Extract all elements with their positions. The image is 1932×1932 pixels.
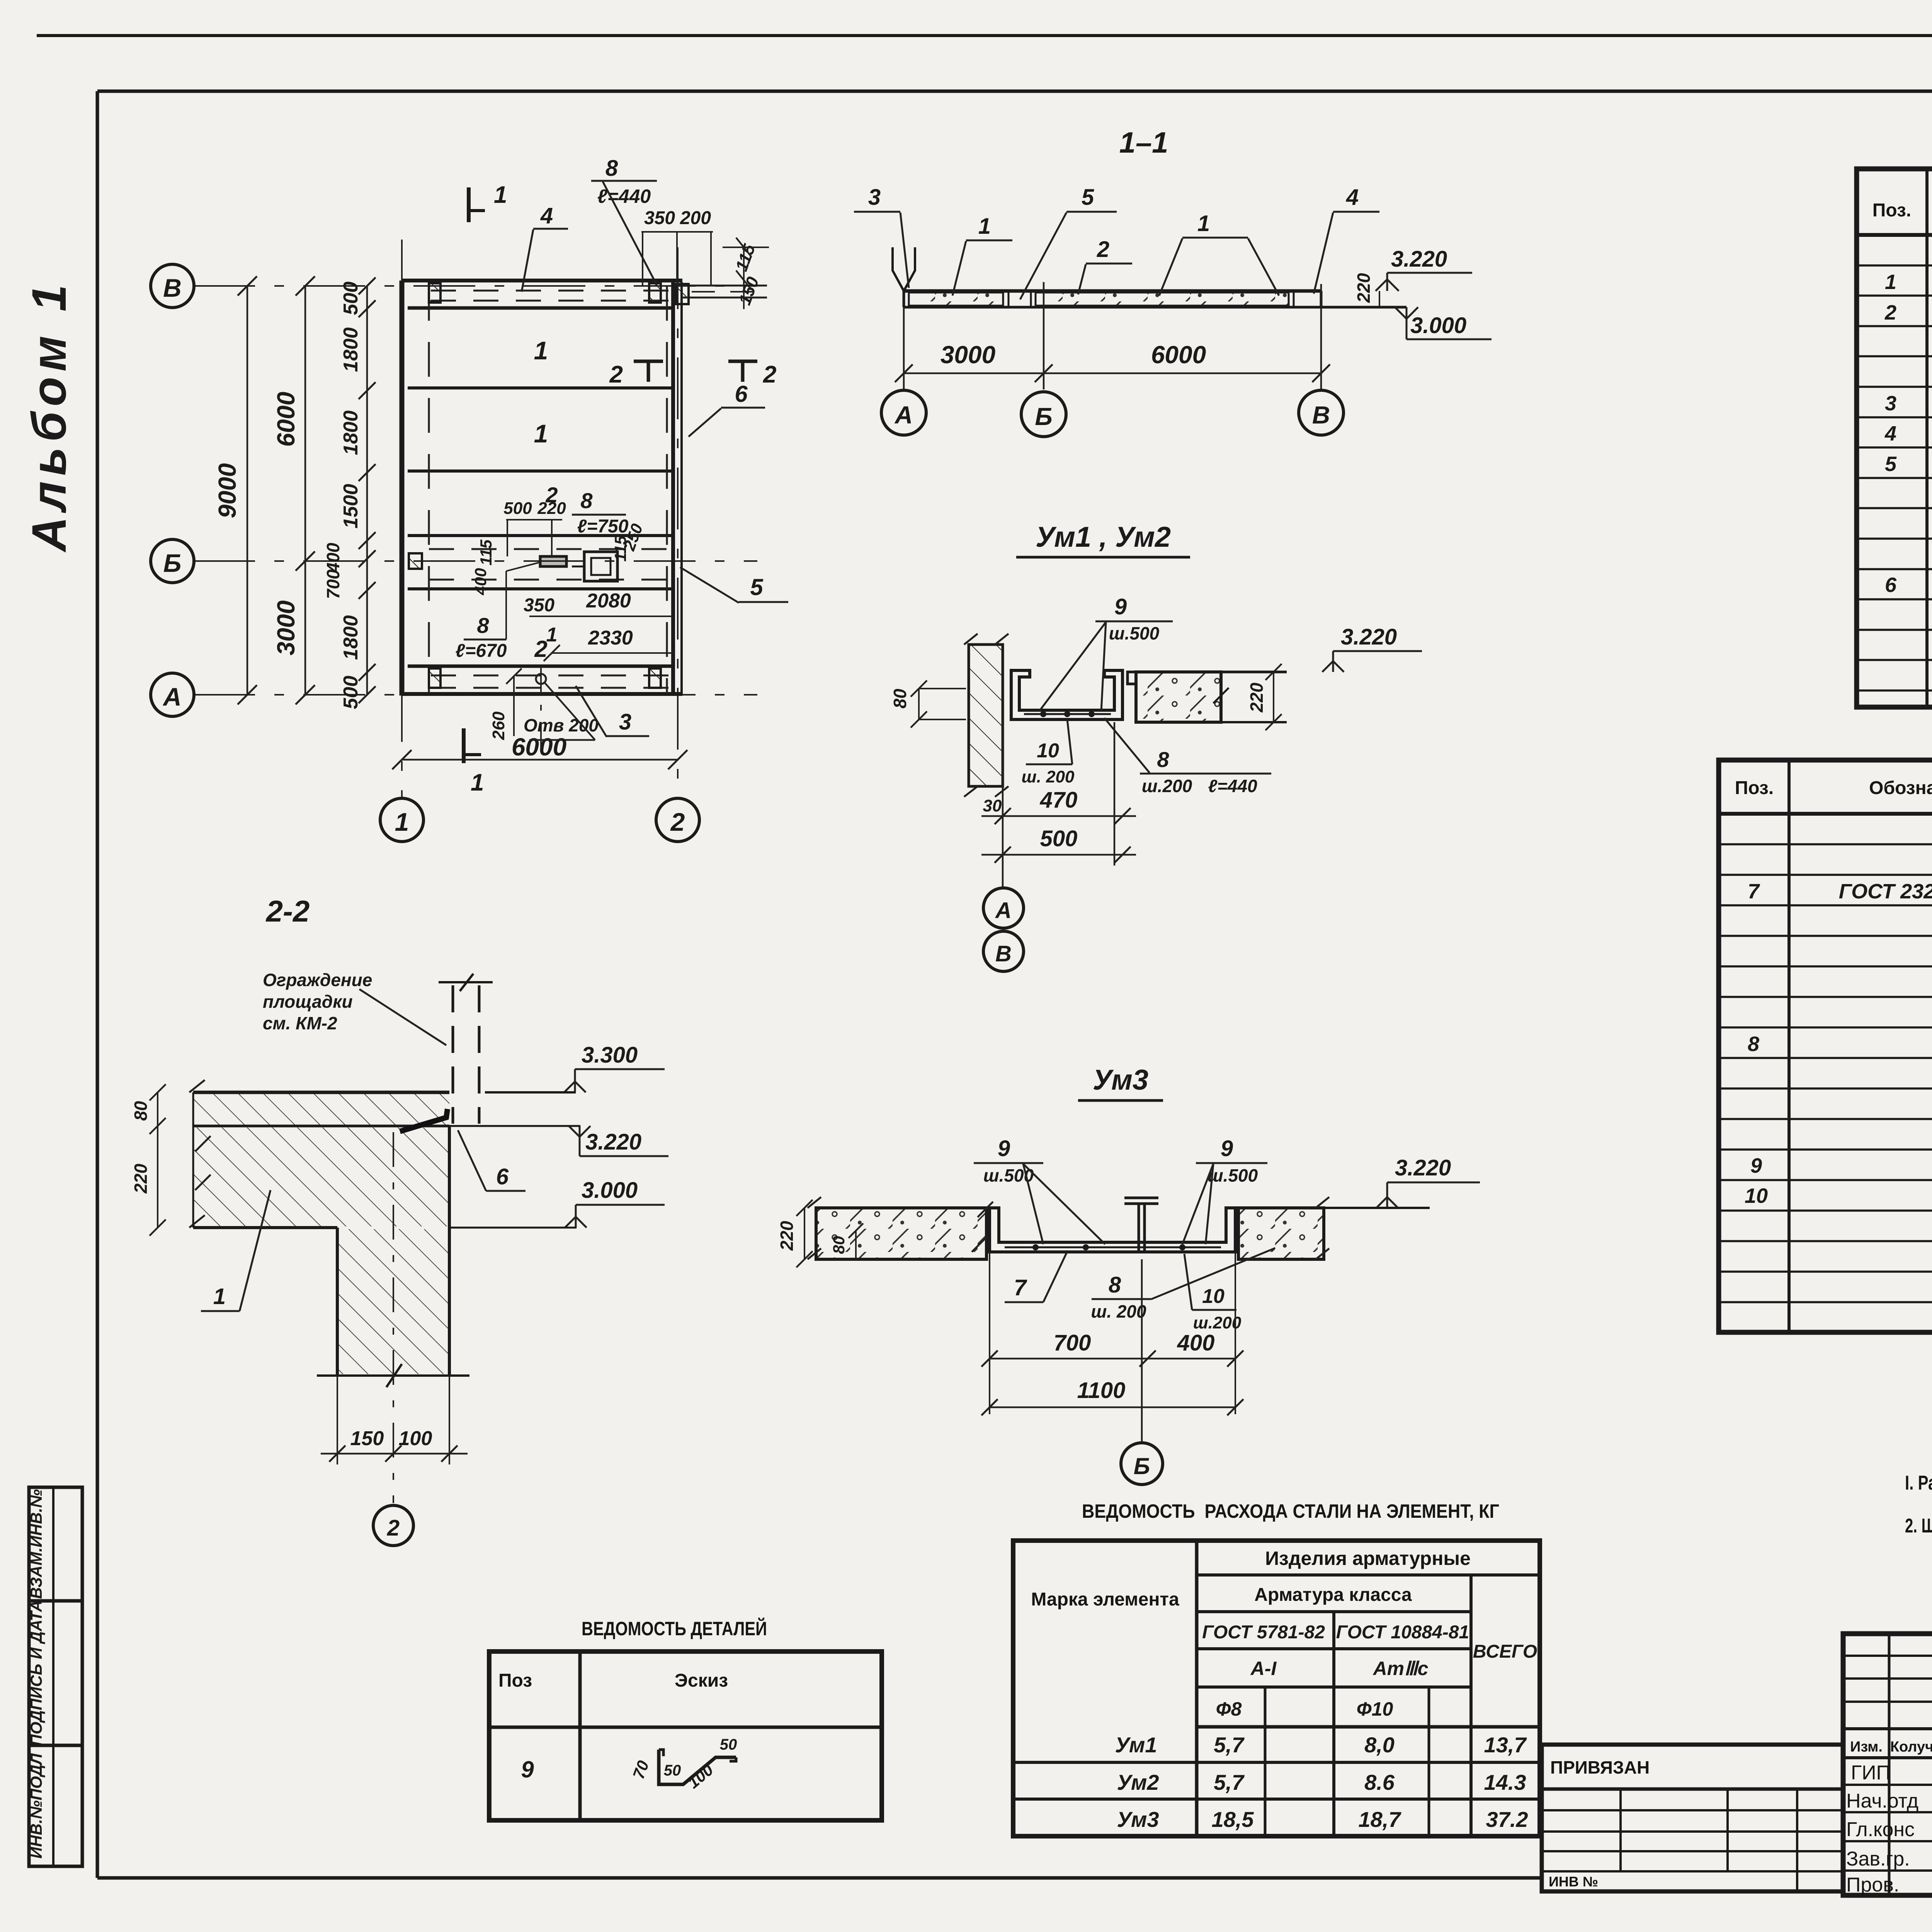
main slab 220 bbox=[193, 1226, 337, 1229]
section mark 2 right bbox=[728, 360, 757, 363]
svg-text:100: 100 bbox=[399, 1427, 432, 1450]
svg-text:Арматура класса: Арматура класса bbox=[1254, 1585, 1412, 1605]
wall section hatched bbox=[969, 645, 1003, 786]
left slab hatched bbox=[816, 1208, 986, 1259]
svg-text:1800: 1800 bbox=[340, 615, 362, 660]
svg-text:80: 80 bbox=[830, 1236, 848, 1254]
hatch top slab bbox=[193, 1094, 449, 1125]
svg-text:10: 10 bbox=[1202, 1285, 1225, 1308]
svg-text:400: 400 bbox=[323, 543, 343, 573]
svg-text:ВЗАМ.ИНВ.№: ВЗАМ.ИНВ.№ bbox=[27, 1489, 45, 1599]
header Изделия арматурные bbox=[1197, 1573, 1540, 1577]
svg-text:1: 1 bbox=[471, 769, 484, 796]
svg-text:1100: 1100 bbox=[1077, 1378, 1126, 1403]
svg-text:220: 220 bbox=[777, 1221, 797, 1251]
concrete fill left plate bbox=[909, 293, 1003, 306]
svg-text:ш.200: ш.200 bbox=[1142, 776, 1192, 796]
svg-text:Изм.: Изм. bbox=[1850, 1739, 1883, 1755]
column below bbox=[336, 1228, 339, 1376]
svg-text:2: 2 bbox=[763, 361, 776, 388]
dashed plate edge line right bbox=[666, 286, 668, 694]
svg-text:ℓ=440: ℓ=440 bbox=[597, 185, 651, 207]
svg-text:9000: 9000 bbox=[213, 463, 241, 518]
middle band top bbox=[408, 534, 673, 537]
svg-text:площадки: площадки bbox=[263, 992, 353, 1012]
svg-text:Эскиз: Эскиз bbox=[675, 1670, 728, 1691]
bottom band top edge bbox=[408, 665, 673, 668]
svg-text:1: 1 bbox=[978, 214, 991, 239]
sketch bent bar bbox=[659, 1750, 736, 1784]
monolithic channel Ум3 bbox=[990, 1208, 1235, 1252]
dim line bbox=[904, 372, 1321, 374]
spec table frame bbox=[1857, 169, 1932, 707]
outer top line bbox=[37, 34, 1932, 37]
svg-text:1: 1 bbox=[494, 182, 507, 208]
svg-text:3: 3 bbox=[619, 709, 631, 735]
title block frame bbox=[1843, 1634, 1932, 1895]
row lines bbox=[1719, 844, 1932, 1302]
svg-text:6000: 6000 bbox=[1151, 341, 1206, 369]
svg-text:115: 115 bbox=[477, 539, 495, 566]
table frame bbox=[1719, 760, 1932, 1332]
svg-text:6000: 6000 bbox=[272, 392, 300, 447]
svg-text:3.300: 3.300 bbox=[582, 1043, 638, 1068]
svg-text:ш. 200: ш. 200 bbox=[1091, 1301, 1146, 1321]
svg-text:3.000: 3.000 bbox=[582, 1178, 638, 1203]
svg-text:6: 6 bbox=[1885, 573, 1897, 597]
axis circle В bbox=[151, 264, 194, 308]
svg-text:В: В bbox=[1312, 401, 1330, 429]
top slab line to right bbox=[1221, 671, 1287, 673]
svg-text:см. КМ-2: см. КМ-2 bbox=[263, 1013, 337, 1033]
svg-text:1500: 1500 bbox=[340, 484, 362, 529]
wall break marks bbox=[964, 634, 1009, 797]
svg-text:8: 8 bbox=[1109, 1272, 1121, 1298]
svg-text:3000: 3000 bbox=[272, 600, 300, 655]
support joints bbox=[1008, 291, 1010, 307]
svg-text:500: 500 bbox=[340, 282, 362, 315]
svg-text:ℓ=670: ℓ=670 bbox=[456, 641, 507, 661]
svg-text:Пров.: Пров. bbox=[1846, 1874, 1899, 1896]
axis circle Б bbox=[151, 539, 194, 583]
column lines bbox=[1787, 760, 1791, 1332]
svg-text:50: 50 bbox=[664, 1762, 681, 1779]
svg-text:ГОСТ 23279- 85: ГОСТ 23279- 85 bbox=[1839, 880, 1932, 903]
ВСЕГО column bbox=[1469, 1575, 1473, 1836]
svg-text:4: 4 bbox=[1884, 422, 1896, 445]
svg-text:ПОДПИСЬ И ДАТА: ПОДПИСЬ И ДАТА bbox=[27, 1600, 45, 1746]
svg-text:220: 220 bbox=[1247, 682, 1267, 713]
svg-text:Поз.: Поз. bbox=[1872, 200, 1911, 221]
svg-text:5: 5 bbox=[1885, 452, 1897, 476]
svg-text:2: 2 bbox=[670, 808, 685, 836]
svg-text:А: А bbox=[894, 401, 913, 429]
leader to railing bbox=[359, 989, 446, 1045]
svg-text:8: 8 bbox=[605, 156, 618, 181]
concrete fill right plates bbox=[1036, 293, 1289, 306]
slab band outline bbox=[904, 289, 1321, 293]
axis circle А bbox=[983, 888, 1024, 928]
svg-text:Б: Б bbox=[1134, 1453, 1150, 1479]
left part rows bbox=[1843, 1656, 1932, 1871]
svg-text:А-I: А-I bbox=[1250, 1658, 1277, 1679]
svg-text:700: 700 bbox=[1054, 1330, 1091, 1355]
left stamp strip bbox=[29, 1487, 82, 1866]
top screed slab 80 bbox=[193, 1091, 449, 1094]
axis line 1 bbox=[401, 240, 403, 798]
embedded part bottom-right bbox=[649, 668, 661, 688]
svg-text:2: 2 bbox=[609, 361, 623, 388]
svg-text:5: 5 bbox=[1082, 185, 1094, 210]
axis vertical В bbox=[1320, 284, 1322, 389]
axis line 2 bbox=[677, 247, 679, 798]
svg-text:Обозначение: Обозначение bbox=[1869, 778, 1932, 798]
title block bbox=[1843, 1634, 1932, 1932]
rebar dots in channel bbox=[1024, 713, 1111, 715]
ГОСТ row bbox=[1197, 1647, 1471, 1650]
svg-text:220: 220 bbox=[131, 1163, 151, 1194]
middle band dashed bbox=[429, 548, 667, 550]
svg-text:Колуч: Колуч bbox=[1890, 1739, 1932, 1755]
svg-text:Ум1 , Ум2: Ум1 , Ум2 bbox=[1036, 521, 1171, 553]
steel consumption table bbox=[1013, 1500, 1540, 1836]
middle detail cluster bbox=[540, 552, 617, 581]
svg-text:500: 500 bbox=[503, 499, 532, 518]
svg-text:500: 500 bbox=[340, 676, 362, 709]
axis line В bbox=[193, 285, 757, 287]
svg-text:ш.500: ш.500 bbox=[1109, 623, 1160, 643]
svg-text:ш. 200: ш. 200 bbox=[1022, 767, 1075, 786]
svg-text:1: 1 bbox=[1885, 270, 1896, 294]
svg-text:150: 150 bbox=[350, 1427, 384, 1450]
svg-text:1: 1 bbox=[534, 419, 548, 448]
svg-text:Изделия арматурные: Изделия арматурные bbox=[1265, 1548, 1471, 1569]
svg-text:1800: 1800 bbox=[340, 410, 362, 455]
svg-text:5,7: 5,7 bbox=[1214, 1770, 1245, 1794]
svg-text:ℓ=750: ℓ=750 bbox=[577, 516, 629, 537]
svg-text:ВЕДОМОСТЬ РАСХОДА СТАЛИ НА ЭЛ: ВЕДОМОСТЬ РАСХОДА СТАЛИ НА ЭЛЕМЕНТ, КГ bbox=[1082, 1500, 1499, 1522]
precast slab right hatched bbox=[1136, 672, 1221, 722]
svg-text:9: 9 bbox=[1750, 1154, 1762, 1177]
svg-text:ГОСТ 10884-81: ГОСТ 10884-81 bbox=[1336, 1622, 1469, 1643]
svg-text:Поз.: Поз. bbox=[1735, 778, 1774, 798]
section 1-1 bbox=[854, 126, 1492, 437]
svg-text:350: 350 bbox=[644, 208, 675, 228]
dashed edges of top band bbox=[431, 290, 668, 292]
svg-text:Альбом 1: Альбом 1 bbox=[22, 279, 76, 553]
svg-text:6: 6 bbox=[496, 1164, 509, 1189]
embedded part top-left bbox=[429, 283, 440, 303]
svg-text:1: 1 bbox=[395, 808, 409, 836]
svg-text:400: 400 bbox=[471, 568, 490, 595]
svg-text:Ограждение: Ограждение bbox=[263, 970, 372, 990]
svg-text:200: 200 bbox=[680, 208, 711, 228]
diameter row bbox=[1197, 1725, 1540, 1729]
svg-text:37.2: 37.2 bbox=[1486, 1807, 1528, 1832]
svg-text:ПРИВЯЗАН: ПРИВЯЗАН bbox=[1550, 1757, 1650, 1777]
data row Ум1 bbox=[1013, 1761, 1540, 1764]
detail Ум3 bbox=[777, 1064, 1480, 1485]
svg-text:3.220: 3.220 bbox=[1391, 247, 1447, 272]
dimension line 9000 bbox=[247, 286, 248, 695]
svg-text:ВСЕГО: ВСЕГО bbox=[1473, 1641, 1537, 1662]
svg-text:1–1: 1–1 bbox=[1119, 126, 1168, 159]
svg-text:2-2: 2-2 bbox=[265, 894, 310, 928]
svg-text:18,7: 18,7 bbox=[1359, 1807, 1402, 1832]
svg-text:8.6: 8.6 bbox=[1364, 1770, 1395, 1794]
axis vertical А bbox=[903, 307, 905, 389]
svg-text:13,7: 13,7 bbox=[1484, 1733, 1527, 1757]
svg-text:8: 8 bbox=[580, 488, 593, 513]
axis line А bbox=[193, 694, 757, 696]
svg-text:2: 2 bbox=[1097, 237, 1109, 262]
hanging wall mark left bbox=[893, 247, 915, 291]
parts sketch table ВЕДОМОСТЬ ДЕТАЛЕЙ bbox=[489, 1617, 882, 1820]
top monolithic band bottom edge bbox=[408, 306, 673, 310]
svg-text:5: 5 bbox=[750, 574, 764, 600]
svg-text:3.220: 3.220 bbox=[1341, 624, 1397, 650]
svg-text:400: 400 bbox=[1177, 1330, 1215, 1355]
axis circle 1 bbox=[380, 798, 423, 842]
svg-text:9: 9 bbox=[1114, 594, 1127, 619]
dimension line 6000/3000 bbox=[304, 286, 306, 695]
triangle leader bbox=[1039, 622, 1106, 711]
svg-text:1: 1 bbox=[1197, 211, 1210, 236]
svg-text:6: 6 bbox=[735, 381, 748, 407]
svg-text:2. Швы между плитами заполнить: 2. Швы между плитами заполнить бетоном к… bbox=[1905, 1515, 1932, 1537]
plan outline bottom bbox=[402, 692, 682, 696]
svg-text:2: 2 bbox=[1884, 301, 1896, 324]
svg-text:7: 7 bbox=[1014, 1275, 1027, 1300]
svg-text:14.3: 14.3 bbox=[1484, 1770, 1526, 1794]
svg-text:8,0: 8,0 bbox=[1364, 1733, 1395, 1757]
svg-text:3: 3 bbox=[1885, 392, 1896, 415]
svg-text:I. Расчетная нагрузка на перек: I. Расчетная нагрузка на перекрытие прин… bbox=[1905, 1472, 1932, 1494]
embedded part at wall corner bbox=[676, 284, 689, 304]
svg-text:9: 9 bbox=[521, 1757, 534, 1782]
svg-text:ВЕДОМОСТЬ ДЕТАЛЕЙ: ВЕДОМОСТЬ ДЕТАЛЕЙ bbox=[582, 1617, 767, 1639]
monolithic channel Ум1 bbox=[1011, 670, 1122, 719]
axis circle Б bbox=[1121, 1443, 1163, 1485]
svg-text:ш.500: ш.500 bbox=[1207, 1165, 1258, 1185]
svg-text:Б: Б bbox=[163, 549, 182, 577]
svg-text:260: 260 bbox=[489, 711, 508, 740]
svg-text:1: 1 bbox=[534, 336, 548, 365]
svg-text:Зав.гр.: Зав.гр. bbox=[1846, 1848, 1910, 1870]
opening mark bbox=[536, 674, 546, 684]
section mark 1 top bbox=[467, 187, 471, 222]
svg-text:1: 1 bbox=[546, 624, 558, 646]
svg-text:Ум3: Ум3 bbox=[1117, 1807, 1159, 1832]
svg-text:ИНВ.№ПОДЛ: ИНВ.№ПОДЛ bbox=[27, 1753, 45, 1859]
plan outline top bbox=[402, 279, 682, 282]
left part columns bbox=[1889, 1634, 1932, 1895]
header row bbox=[1857, 233, 1932, 237]
svg-text:1: 1 bbox=[213, 1284, 226, 1309]
svg-text:В: В bbox=[995, 941, 1012, 966]
svg-text:7: 7 bbox=[1748, 880, 1760, 903]
attachment table ПРИВЯЗАН bbox=[1542, 1745, 1843, 1891]
svg-text:ИНВ №: ИНВ № bbox=[1549, 1874, 1598, 1889]
column Марка divider bbox=[1195, 1541, 1199, 1836]
detail Ум1 Ум2 bbox=[890, 521, 1422, 971]
plate divider line bbox=[408, 386, 673, 389]
svg-text:4: 4 bbox=[540, 203, 553, 228]
embedded part mid-left bbox=[409, 553, 422, 569]
middle band bottom bbox=[408, 587, 673, 590]
svg-text:3.000: 3.000 bbox=[1410, 313, 1466, 338]
right wall double line bbox=[671, 281, 675, 696]
svg-text:В: В bbox=[163, 274, 182, 302]
svg-text:Ум2: Ум2 bbox=[1117, 1770, 1159, 1794]
svg-text:Ум1: Ум1 bbox=[1115, 1733, 1157, 1757]
plate divider line bbox=[408, 469, 673, 473]
svg-text:АтⅢс: АтⅢс bbox=[1372, 1658, 1429, 1679]
svg-text:350: 350 bbox=[524, 595, 554, 616]
svg-text:3: 3 bbox=[868, 185, 881, 210]
center line to circle 2 bbox=[393, 1132, 394, 1503]
svg-text:6000: 6000 bbox=[512, 733, 566, 761]
svg-text:2330: 2330 bbox=[588, 627, 633, 649]
axis circle А bbox=[881, 390, 926, 435]
bottom dimension 6000 bbox=[402, 759, 678, 761]
svg-text:Марка элемента: Марка элемента bbox=[1031, 1589, 1179, 1610]
embedded part top-right bbox=[649, 283, 661, 303]
svg-text:Поз: Поз bbox=[498, 1670, 532, 1691]
right slab hatched bbox=[1238, 1208, 1324, 1259]
svg-text:9: 9 bbox=[1221, 1136, 1233, 1161]
left bearing wall bbox=[400, 281, 405, 696]
svg-text:700: 700 bbox=[323, 569, 343, 599]
svg-text:2: 2 bbox=[534, 636, 547, 662]
header Арматура класса bbox=[1197, 1610, 1471, 1613]
column break bottom bbox=[317, 1374, 469, 1377]
data row Ум2 bbox=[1013, 1798, 1540, 1801]
slab cut mark bbox=[1213, 672, 1229, 722]
svg-text:9: 9 bbox=[998, 1136, 1010, 1161]
svg-text:4: 4 bbox=[1346, 185, 1359, 210]
left break marks bbox=[189, 1080, 211, 1228]
specification table bbox=[1857, 119, 1932, 707]
dashed plate edge line left bbox=[428, 286, 430, 694]
svg-text:1800: 1800 bbox=[340, 327, 362, 372]
embedded angle part thick bbox=[400, 1109, 447, 1131]
svg-text:3.220: 3.220 bbox=[1395, 1155, 1451, 1180]
svg-text:10: 10 bbox=[1037, 740, 1059, 762]
header bottom bbox=[1719, 812, 1932, 816]
svg-text:10: 10 bbox=[1745, 1184, 1768, 1207]
axis circle А bbox=[151, 673, 194, 716]
axis line Б bbox=[193, 560, 757, 562]
table frame bbox=[1013, 1541, 1540, 1836]
floor plan drawing bbox=[151, 156, 788, 842]
embedded part bottom-left bbox=[429, 668, 440, 688]
svg-text:3.220: 3.220 bbox=[585, 1129, 641, 1155]
table frame bbox=[489, 1651, 882, 1820]
svg-text:50: 50 bbox=[720, 1736, 737, 1753]
svg-text:Ф8: Ф8 bbox=[1216, 1698, 1242, 1720]
data grid lines bbox=[1857, 265, 1932, 690]
axis circle В bbox=[983, 931, 1024, 971]
axis circle Б bbox=[1021, 392, 1066, 437]
dimension line small segments bbox=[366, 286, 368, 695]
section 2-2 bbox=[131, 894, 668, 1546]
svg-text:А: А bbox=[162, 682, 182, 711]
svg-text:5,7: 5,7 bbox=[1214, 1733, 1245, 1757]
railing post dashed bbox=[452, 985, 454, 1124]
svg-text:Ф10: Ф10 bbox=[1357, 1698, 1393, 1720]
axis drop line bbox=[1002, 719, 1004, 887]
column lines bbox=[1925, 169, 1929, 707]
svg-text:30: 30 bbox=[983, 796, 1002, 815]
svg-text:ГИП: ГИП bbox=[1851, 1762, 1891, 1784]
svg-text:80: 80 bbox=[890, 689, 910, 709]
axis circle 2 bbox=[373, 1505, 413, 1546]
svg-text:8: 8 bbox=[477, 613, 489, 638]
svg-text:80: 80 bbox=[131, 1101, 151, 1121]
svg-text:470: 470 bbox=[1040, 787, 1078, 813]
svg-text:220: 220 bbox=[537, 499, 566, 518]
svg-text:Гл.конс: Гл.конс bbox=[1846, 1818, 1915, 1841]
monolithic units parts table bbox=[1719, 760, 1932, 1332]
axis drop to Б bbox=[1141, 1259, 1143, 1442]
svg-text:8: 8 bbox=[1748, 1032, 1759, 1056]
svg-text:3000: 3000 bbox=[940, 341, 995, 369]
svg-text:А: А bbox=[995, 898, 1012, 923]
svg-text:8: 8 bbox=[1157, 747, 1169, 772]
svg-text:500: 500 bbox=[1040, 826, 1078, 851]
left slab break marks bbox=[808, 1197, 993, 1259]
svg-text:Б: Б bbox=[1035, 403, 1052, 430]
svg-text:18,5: 18,5 bbox=[1212, 1807, 1254, 1832]
svg-text:ℓ=440: ℓ=440 bbox=[1208, 776, 1257, 796]
svg-text:2080: 2080 bbox=[586, 590, 631, 612]
svg-text:220: 220 bbox=[1354, 273, 1374, 303]
svg-text:2: 2 bbox=[387, 1515, 400, 1541]
class row bbox=[1197, 1685, 1471, 1689]
axis circle 2 bbox=[656, 798, 699, 842]
crane rail I-beam bbox=[1124, 1198, 1158, 1252]
svg-text:ГОСТ 5781-82: ГОСТ 5781-82 bbox=[1202, 1622, 1325, 1643]
svg-text:Нач.отд: Нач.отд bbox=[1846, 1790, 1918, 1812]
axis circle В bbox=[1299, 390, 1344, 435]
axis vertical Б bbox=[1043, 282, 1045, 389]
svg-text:ш.200: ш.200 bbox=[1193, 1313, 1242, 1332]
band extension lines right bbox=[682, 285, 767, 287]
svg-text:Ум3: Ум3 bbox=[1093, 1064, 1148, 1096]
dashed edges of bottom band bbox=[431, 675, 668, 677]
section mark 1 bottom bbox=[462, 728, 466, 763]
notes bbox=[1905, 1467, 1932, 1566]
